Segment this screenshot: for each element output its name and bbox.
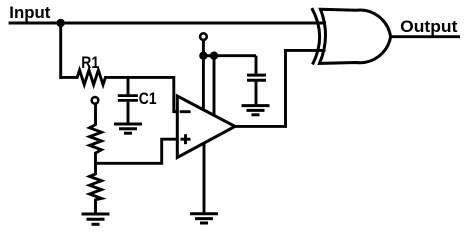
svg-text:C1: C1 xyxy=(139,90,157,108)
svg-text:R1: R1 xyxy=(81,54,99,72)
svg-text:Input: Input xyxy=(9,3,50,22)
svg-text:Output: Output xyxy=(400,17,458,36)
